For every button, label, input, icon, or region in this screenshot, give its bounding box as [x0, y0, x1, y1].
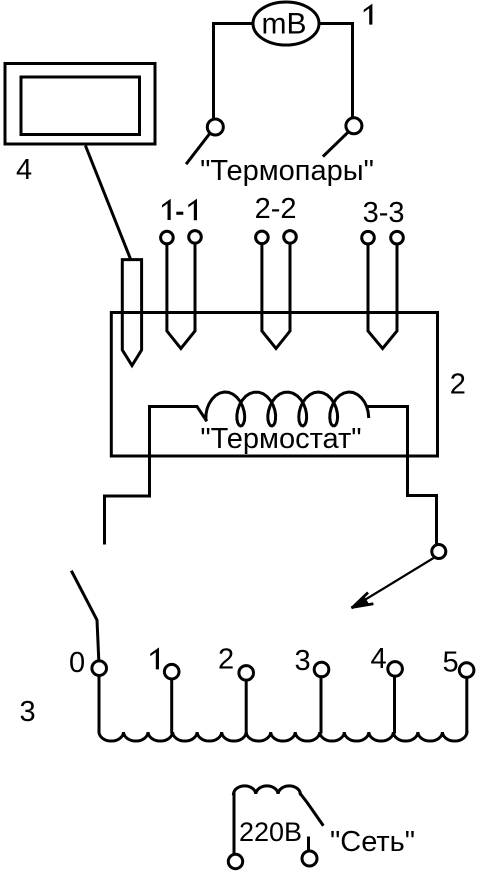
- tap 3 stem: [320, 677, 323, 732]
- thermocouple 1-1 electrodes: [167, 243, 195, 348]
- primary coil 220V: [234, 786, 301, 794]
- svg-text:2: 2: [218, 644, 234, 676]
- tap terminal 1: [164, 664, 179, 679]
- mains terminal right: [302, 851, 317, 866]
- svg-text:220В: 220В: [239, 817, 302, 847]
- thermocouple 1-1 terminal a: [161, 231, 174, 244]
- label 1: [150, 647, 159, 669]
- switch blade right: [324, 132, 348, 155]
- thermocouple 3-3 terminal a: [362, 231, 375, 244]
- primary right lead / switch blade: [300, 794, 322, 825]
- thermocouple 1-1 terminal b: [189, 231, 202, 244]
- mains terminal left: [228, 854, 242, 868]
- millivoltmeter PV1 body: [253, 2, 319, 45]
- svg-text:2: 2: [450, 368, 466, 400]
- tap terminal 4: [388, 662, 403, 677]
- thermocouple 3-3 terminal b: [391, 231, 404, 244]
- thermocouple 2-2 terminal a: [256, 231, 269, 244]
- primary left lead: [233, 794, 236, 854]
- tap 2 stem: [245, 680, 248, 732]
- tap 1 stem: [170, 679, 173, 732]
- tap 0 stem: [98, 676, 101, 733]
- svg-text:"Термостат": "Термостат": [200, 423, 361, 455]
- switch blade left: [187, 134, 210, 164]
- wire from device 4 to probe: [86, 147, 131, 259]
- heater coil lead right: [368, 405, 408, 408]
- svg-text:4: 4: [371, 643, 387, 675]
- thermostat chamber 2: [111, 313, 437, 457]
- svg-text:3: 3: [295, 645, 311, 677]
- svg-text:3-3: 3-3: [363, 197, 405, 229]
- tap 5 stem: [465, 677, 468, 732]
- indicator device 4 screen: [21, 77, 140, 135]
- heater coil lead left: [150, 407, 207, 421]
- mains terminal right stem: [307, 838, 310, 850]
- thermocouple 2-2 terminal b: [284, 231, 297, 244]
- wire meter left: [214, 24, 254, 120]
- terminal left of Термопары: [207, 119, 223, 135]
- terminal right of Термопары: [346, 118, 362, 134]
- knife switch blade to tap 0: [72, 572, 99, 661]
- svg-text:2-2: 2-2: [255, 193, 297, 225]
- label 1: [364, 4, 373, 25]
- wire coil left down: [105, 407, 150, 544]
- wire meter right: [319, 24, 353, 118]
- thermocouple 3-3 electrodes: [368, 244, 397, 349]
- tap terminal 2: [239, 666, 254, 681]
- arrowhead: [353, 594, 372, 608]
- thermometer probe: [122, 260, 141, 366]
- tap terminal 3: [314, 662, 329, 677]
- label 1-1: [162, 199, 171, 220]
- tap terminal 0: [92, 661, 107, 676]
- svg-text:0: 0: [69, 647, 85, 679]
- indicator device 4 outer case: [5, 64, 155, 145]
- svg-text:"Сеть": "Сеть": [330, 826, 415, 858]
- svg-text:5: 5: [443, 647, 459, 679]
- svg-text:"Термопары": "Термопары": [200, 155, 374, 187]
- tap 4 stem: [393, 676, 396, 732]
- autotransformer 3 winding: [99, 732, 467, 741]
- svg-text:mB: mB: [262, 8, 307, 41]
- tap terminal 5: [459, 663, 474, 678]
- svg-text:3: 3: [20, 696, 36, 728]
- svg-text:4: 4: [16, 154, 32, 186]
- heater coil: [206, 392, 369, 426]
- wiper contact terminal: [432, 545, 446, 559]
- thermocouple 2-2 electrodes: [262, 243, 290, 348]
- arrow from wiper to autotransformer: [353, 558, 434, 607]
- wire coil right down to wiper: [408, 407, 437, 545]
